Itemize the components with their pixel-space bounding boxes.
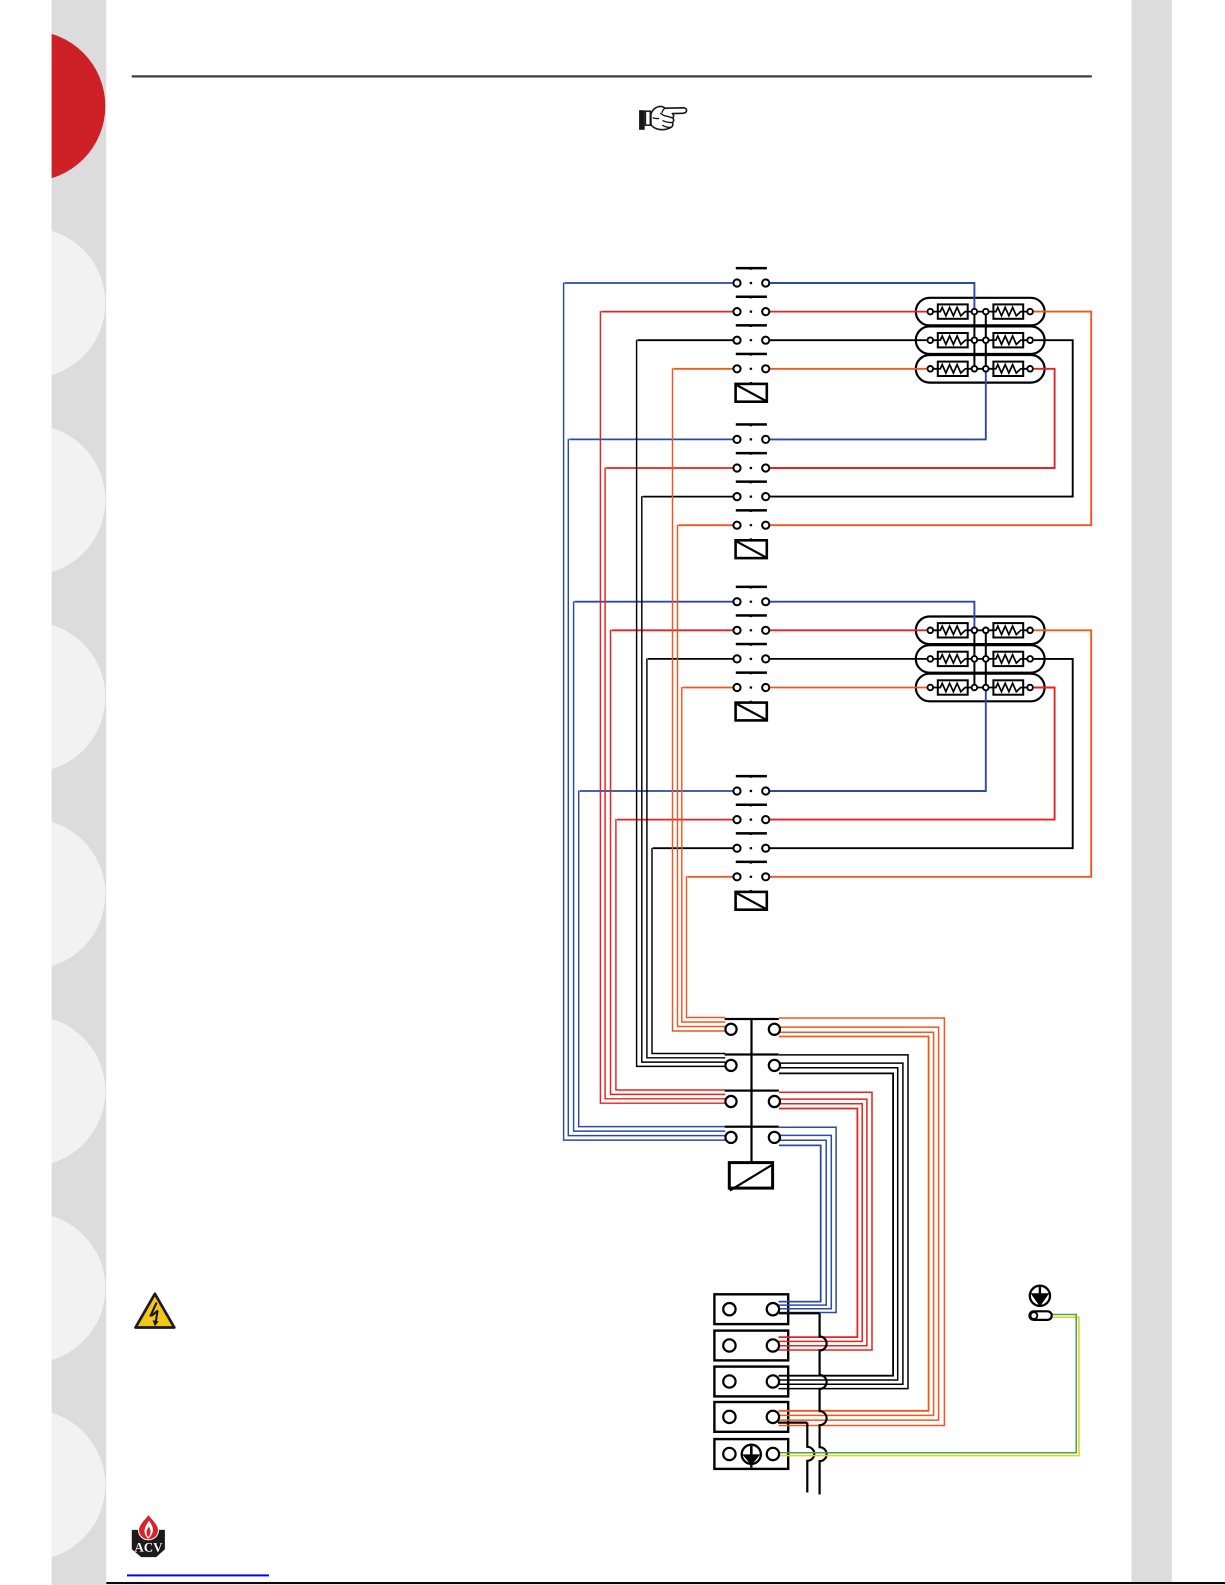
heating element R1 (upper bank) inner-left terminal xyxy=(972,309,978,315)
terminal block X4 (orange) screws xyxy=(723,1411,779,1423)
wire black main contactor to terminal strip #3 xyxy=(779,1068,898,1380)
wire red heater upper row3 right to relay row2 xyxy=(769,369,1054,468)
wire black K2 left to main contactor xyxy=(642,496,734,1062)
wire black main contactor to terminal strip #2 xyxy=(779,1063,903,1384)
wire blue K1 left to main contactor xyxy=(564,283,734,1141)
heating element R4 (lower bank) body xyxy=(916,617,1045,645)
wire orange K4 left to main contactor xyxy=(687,876,734,1017)
warning triangle (electric shock) xyxy=(136,1294,175,1328)
relay K1 contact bar 3 xyxy=(736,324,767,327)
terminal block X5 earth xyxy=(714,1439,788,1469)
mains wire from terminal X1 down xyxy=(779,1313,827,1494)
heater bank upper inner-left link xyxy=(973,312,975,369)
relay K2 contact 1 terminals xyxy=(733,436,769,443)
relay K3 contact bar 2 xyxy=(736,614,767,617)
relay K1 contact bar 2 xyxy=(736,296,767,299)
main contactor bar 3 xyxy=(725,1090,779,1092)
wire orange main contactor to terminal strip #2 xyxy=(779,1027,939,1420)
main contactor pole 2 terminals xyxy=(725,1060,780,1071)
relay K3 contact 1 terminals xyxy=(733,598,769,605)
relay K2 contact 2 terminals xyxy=(733,464,769,471)
relay K2 contact bar 3 xyxy=(736,480,767,483)
wire black main contactor to terminal strip #4 xyxy=(779,1073,894,1375)
wire red main contactor to terminal strip #2 xyxy=(779,1099,867,1346)
wire red lower relay row2 to heater row1 left xyxy=(769,629,926,631)
relay K1 contact bar 1 xyxy=(736,267,767,270)
main contactor pole 4 terminals xyxy=(725,1132,780,1143)
heating element R3 (upper bank) inner-left terminal xyxy=(972,366,978,372)
main contactor bar 2 xyxy=(725,1053,779,1055)
wire red main contactor to terminal strip #1 xyxy=(779,1092,873,1350)
heating element R1 (upper bank) outer-left terminal xyxy=(928,309,934,315)
relay K1 contact 3 terminals xyxy=(733,337,769,344)
wire blue K2 left to main contactor xyxy=(568,439,733,1136)
heating element R6 (lower bank) resistor right xyxy=(993,680,1023,694)
heating element R3 (upper bank) outer-right terminal xyxy=(1027,366,1033,372)
wire black K1 left to main contactor xyxy=(637,340,734,1067)
heating element R6 (lower bank) resistor left xyxy=(938,680,968,694)
relay K1 contact bar 4 xyxy=(736,353,767,356)
relay K3 contact 3 terminals xyxy=(733,655,769,662)
heating element R3 (upper bank) resistor right xyxy=(993,362,1023,376)
relay K2 contact bar 2 xyxy=(736,452,767,455)
heating element R3 (upper bank) resistor left xyxy=(938,362,968,376)
heating element R1 (upper bank) outer-right terminal xyxy=(1027,309,1033,315)
relay K2 contact bar 4 xyxy=(736,509,767,512)
relay K1 coil xyxy=(736,384,767,402)
relay K1 contact 4 terminals xyxy=(733,365,769,372)
wire red main contactor to terminal strip #3 xyxy=(779,1104,863,1342)
wire black upper relay row3 to heater row2 left xyxy=(769,339,926,341)
wire blue heater lower inner-right to next relay row1 xyxy=(769,691,986,792)
relay K4 contact bar 1 xyxy=(736,775,767,778)
wire red K1 left to main contactor xyxy=(600,311,733,1103)
wire orange lower relay row4 to heater row3 left xyxy=(769,687,926,689)
wire red main contactor to terminal strip #4 xyxy=(779,1109,858,1338)
heating element R6 (lower bank) outer-left terminal xyxy=(928,685,934,691)
relay K3 coil xyxy=(736,703,767,721)
heating element R6 (lower bank) inner-right terminal xyxy=(983,685,989,691)
ACV logo xyxy=(132,1513,165,1557)
heating element R6 (lower bank) body xyxy=(916,674,1045,702)
terminal block X2 (red) screws xyxy=(723,1339,779,1351)
heating element R4 (lower bank) inner-right terminal xyxy=(983,628,989,634)
heating element R6 (lower bank) internal wiring xyxy=(930,687,1030,689)
relay K3 contact bar 3 xyxy=(736,643,767,646)
heating element R5 (lower bank) body xyxy=(916,645,1045,673)
terminal block X3 (black) xyxy=(714,1367,788,1397)
relay K3 contact bar 4 xyxy=(736,671,767,674)
relay K3 contact 4 terminals xyxy=(733,684,769,691)
heating element R5 (lower bank) resistor right xyxy=(993,652,1023,666)
main contactor bar 1 xyxy=(725,1018,779,1020)
wire orange main contactor to terminal strip #1 xyxy=(779,1018,945,1426)
wire blue main contactor to terminal strip #4 xyxy=(779,1145,821,1301)
heating element R5 (lower bank) resistor left xyxy=(938,652,968,666)
relay K4 actuator dashed line xyxy=(750,776,752,893)
relay K2 coil xyxy=(736,540,767,558)
terminal block X1 (blue) xyxy=(714,1294,788,1324)
pointing hand icon xyxy=(639,106,687,129)
right sidebar strip xyxy=(1132,0,1172,1582)
wire orange K3 left to main contactor xyxy=(682,687,734,1022)
heating element R2 (upper bank) resistor left xyxy=(938,333,968,347)
wire blue main contactor to terminal strip #3 xyxy=(779,1140,827,1305)
terminal block X5 earth screws xyxy=(723,1448,779,1460)
heating element R4 (lower bank) resistor right xyxy=(993,623,1023,637)
wire orange main contactor to terminal strip #4 xyxy=(779,1037,929,1411)
heating element R3 (upper bank) body xyxy=(916,355,1045,383)
relay K4 contact 2 terminals xyxy=(733,816,769,823)
relay K1 contact 2 terminals xyxy=(733,308,769,315)
heating element R4 (lower bank) inner-left terminal xyxy=(972,628,978,634)
heating element R5 (lower bank) outer-left terminal xyxy=(928,656,934,662)
top rule xyxy=(132,75,1092,77)
relay K2 contact 4 terminals xyxy=(733,522,769,529)
heater bank upper inner-right link xyxy=(985,312,987,369)
relay K2 contact 3 terminals xyxy=(733,493,769,500)
relay K4 contact 3 terminals xyxy=(733,845,769,852)
pump connector xyxy=(1030,1311,1052,1320)
main contactor bar 4 xyxy=(725,1126,779,1128)
heating element R2 (upper bank) inner-left terminal xyxy=(972,337,978,343)
relay K3 contact 2 terminals xyxy=(733,627,769,634)
wire orange K1 left to main contactor xyxy=(673,368,734,1031)
wire red heater lower row3 right to relay row2 xyxy=(769,688,1054,820)
relay K2 actuator dashed line xyxy=(750,424,752,541)
wire black K3 left to main contactor xyxy=(647,658,734,1057)
main contactor pole 1 terminals xyxy=(725,1024,780,1035)
wire black main contactor to terminal strip #1 xyxy=(779,1055,909,1389)
wire black heater upper row2 right to relay row3 xyxy=(769,340,1072,496)
wire red K2 left to main contactor xyxy=(605,468,733,1099)
heating element R1 (upper bank) internal wiring xyxy=(930,311,1030,313)
terminal block X4 (orange) xyxy=(714,1402,788,1432)
relay K4 contact bar 3 xyxy=(736,832,767,835)
left sidebar strip with circles xyxy=(0,0,106,1585)
wire blue K3 left to main contactor xyxy=(574,601,734,1131)
heating element R6 (lower bank) inner-left terminal xyxy=(972,685,978,691)
wire black lower relay row3 to heater row2 left xyxy=(769,658,926,660)
wire red K3 left to main contactor xyxy=(611,630,734,1095)
main contactor pole 3 terminals xyxy=(725,1096,780,1107)
relay K4 contact 4 terminals xyxy=(733,873,769,880)
terminal block X3 (black) screws xyxy=(723,1375,779,1387)
wire orange main contactor to terminal strip #3 xyxy=(779,1032,934,1415)
wire blue K4 left to main contactor xyxy=(579,791,734,1127)
heating element R2 (upper bank) inner-right terminal xyxy=(983,337,989,343)
heating element R5 (lower bank) inner-left terminal xyxy=(972,656,978,662)
earth wire green xyxy=(780,1315,1076,1453)
wire red upper relay row2 to heater row1 left xyxy=(769,311,926,313)
heating element R2 (upper bank) outer-left terminal xyxy=(928,337,934,343)
footer blue underline xyxy=(127,1574,269,1576)
heating element R6 (lower bank) outer-right terminal xyxy=(1027,685,1033,691)
terminal block X2 (red) xyxy=(714,1331,788,1361)
heating element R2 (upper bank) body xyxy=(916,326,1045,354)
wire red K4 left to main contactor xyxy=(616,819,734,1090)
heating element R1 (upper bank) inner-right terminal xyxy=(983,309,989,315)
main contactor vertical link xyxy=(750,1019,752,1163)
heating element R3 (upper bank) internal wiring xyxy=(930,368,1030,370)
heating element R3 (upper bank) outer-left terminal xyxy=(928,366,934,372)
mains wire from terminal X4 down xyxy=(778,1423,814,1493)
relay K3 contact bar 1 xyxy=(736,586,767,589)
heating element R1 (upper bank) body xyxy=(916,298,1045,326)
heating element R4 (lower bank) internal wiring xyxy=(930,629,1030,631)
earth wire yellow xyxy=(780,1317,1079,1455)
heating element R2 (upper bank) internal wiring xyxy=(930,339,1030,341)
main contactor coil xyxy=(729,1163,772,1191)
relay K4 contact bar 2 xyxy=(736,804,767,807)
relay K4 contact bar 4 xyxy=(736,861,767,864)
heater bank lower inner-left link xyxy=(973,630,975,687)
heating element R5 (lower bank) inner-right terminal xyxy=(983,656,989,662)
heating element R2 (upper bank) resistor right xyxy=(993,333,1023,347)
wire orange heater lower row1 right to relay row4 xyxy=(769,630,1091,877)
relay K1 actuator dashed line xyxy=(750,268,752,385)
heating element R5 (lower bank) internal wiring xyxy=(930,658,1030,660)
heating element R1 (upper bank) resistor left xyxy=(938,304,968,318)
heater bank lower inner-right link xyxy=(985,630,987,687)
relay K3 actuator dashed line xyxy=(750,586,752,703)
wire orange heater upper row1 right to relay row4 xyxy=(769,312,1091,526)
heating element R1 (upper bank) resistor right xyxy=(993,304,1023,318)
wire blue heater upper inner-right to next relay row1 xyxy=(769,372,986,440)
pump earth symbol xyxy=(1030,1285,1050,1307)
heating element R4 (lower bank) outer-left terminal xyxy=(928,628,934,634)
wire blue upper relay row1 to heater inner-left xyxy=(769,283,974,309)
relay K4 contact 1 terminals xyxy=(733,787,769,794)
wire orange K2 left to main contactor xyxy=(678,525,734,1027)
wire blue main contactor to terminal strip #1 xyxy=(779,1127,837,1312)
wire black heater lower row2 right to relay row3 xyxy=(769,659,1072,848)
heating element R4 (lower bank) resistor left xyxy=(938,623,968,637)
wire blue main contactor to terminal strip #2 xyxy=(779,1135,832,1308)
heating element R3 (upper bank) inner-right terminal xyxy=(983,366,989,372)
heating element R5 (lower bank) outer-right terminal xyxy=(1027,656,1033,662)
wire blue lower relay row1 to heater inner-left xyxy=(769,602,974,628)
bottom rule xyxy=(106,1582,1225,1584)
heating element R2 (upper bank) outer-right terminal xyxy=(1027,337,1033,343)
earth terminal symbol xyxy=(742,1445,761,1468)
wire orange upper relay row4 to heater row3 left xyxy=(769,368,926,370)
wire black K4 left to main contactor xyxy=(652,848,733,1054)
relay K4 coil xyxy=(736,892,767,910)
relay K1 contact 1 terminals xyxy=(733,279,769,286)
relay K2 contact bar 1 xyxy=(736,423,767,426)
terminal block X1 (blue) screws xyxy=(723,1303,779,1315)
heating element R4 (lower bank) outer-right terminal xyxy=(1027,628,1033,634)
